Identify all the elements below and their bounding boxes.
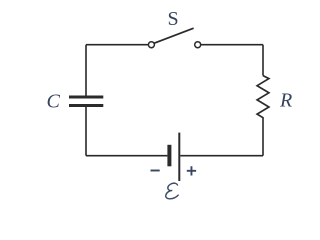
svg-text:R: R: [279, 89, 292, 111]
wire top-left segment: [86, 44, 148, 46]
switch S left terminal: [148, 42, 154, 48]
capacitor C bottom plate: [69, 104, 103, 107]
wire right segment lower (resistor to corner): [262, 119, 264, 156]
wire left segment upper (corner to capacitor): [85, 45, 87, 96]
label EMF script E: [166, 183, 178, 199]
label plus sign: [187, 166, 196, 175]
switch S blade: [154, 28, 193, 43]
label minus sign: [151, 170, 160, 172]
wire top-right segment: [201, 44, 263, 46]
capacitor C top plate: [69, 96, 103, 99]
svg-text:C: C: [47, 91, 61, 113]
wire left segment lower (capacitor to corner): [85, 107, 87, 156]
battery negative plate (short thick): [167, 145, 171, 167]
battery positive plate (long thin): [178, 133, 180, 181]
svg-text:S: S: [168, 8, 179, 30]
wire right segment upper (corner to resistor): [262, 45, 264, 76]
wire bottom-left segment (corner to battery): [86, 155, 167, 157]
switch S right terminal: [195, 42, 201, 48]
wire bottom-right segment (battery to corner): [180, 155, 263, 157]
resistor R zigzag: [257, 76, 269, 119]
